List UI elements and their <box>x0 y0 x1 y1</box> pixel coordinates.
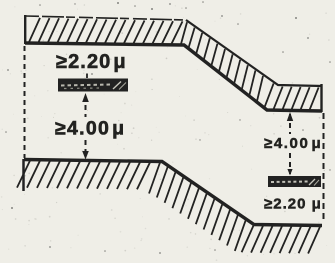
top wall bottom edge <box>25 43 322 111</box>
bottom wall left edge <box>22 159 25 191</box>
bottom wall top edge <box>24 160 322 226</box>
bottom wall hatching <box>17 161 320 254</box>
top wall hatching <box>29 18 319 110</box>
right dimension line (4.00u) with arrows <box>289 114 291 174</box>
svg-text:≥2.20 μ: ≥2.20 μ <box>264 196 322 213</box>
svg-text:≥4.00μ: ≥4.00μ <box>55 118 125 140</box>
right dashed boundary line <box>323 113 325 222</box>
top wall left edge <box>24 15 26 44</box>
left dimension line (4.00u) with arrows <box>85 96 87 157</box>
left dashed boundary line <box>24 46 26 158</box>
top wall top edge <box>25 16 186 20</box>
right electrode bar (hatched) <box>268 176 321 187</box>
top wall right edge <box>320 84 322 112</box>
svg-text:≥4.00μ: ≥4.00μ <box>264 135 322 152</box>
small tick above left bar <box>86 74 88 79</box>
left electrode bar (hatched) <box>58 79 128 92</box>
